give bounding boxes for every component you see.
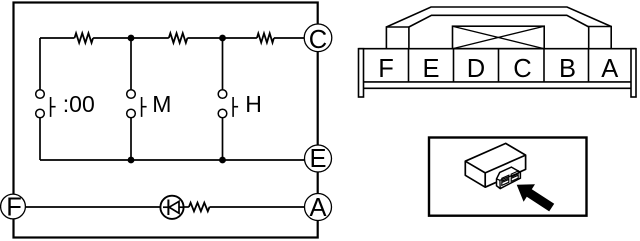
connector cell divider E/D: [453, 49, 455, 82]
connector face bottom: [364, 81, 632, 83]
junction top rail node 2: [219, 35, 226, 42]
terminal F: [1, 194, 26, 222]
svg-text:A: A: [601, 55, 618, 83]
location inset box: [429, 138, 587, 216]
clock module 3D body: [465, 143, 525, 187]
svg-text:D: D: [467, 55, 485, 83]
junction bottom rail node 1: [128, 157, 135, 164]
connector lock X-box: [453, 26, 545, 49]
wire branch 3 upper: [222, 38, 224, 90]
clock unit outline box: [14, 3, 318, 238]
pointer arrow: [517, 184, 555, 211]
connector left tab: [386, 27, 409, 49]
svg-text:M: M: [152, 91, 171, 117]
svg-text:C: C: [513, 55, 531, 83]
svg-text:E: E: [309, 145, 326, 173]
terminal E: [305, 145, 332, 173]
wire top rail segment 2: [93, 37, 169, 39]
svg-text:F: F: [378, 55, 394, 83]
connector cell divider F/E: [408, 49, 410, 82]
resistor R2: [169, 33, 188, 43]
connector cell divider C/B: [543, 49, 545, 82]
wire top rail segment 3: [187, 37, 257, 39]
connector right tab: [589, 27, 612, 49]
connector hood outer: [386, 7, 611, 27]
connector face top: [359, 48, 637, 50]
wire diode to resistor: [184, 206, 189, 208]
wire resistor to A: [210, 206, 305, 208]
connector base line: [364, 87, 632, 89]
connector cell divider B/A: [588, 49, 590, 82]
socket holes: [502, 171, 518, 185]
wire branch 2 upper: [130, 38, 132, 90]
svg-text:E: E: [422, 55, 439, 83]
terminal A: [305, 194, 332, 223]
svg-text:A: A: [309, 194, 326, 222]
switch S1 :00: [36, 90, 56, 118]
wire branch 3 lower: [222, 118, 224, 160]
switch S3 H: [218, 90, 238, 118]
svg-text:F: F: [6, 194, 22, 222]
wire branch 1 upper: [39, 38, 41, 90]
diode D1 in circle: [160, 196, 183, 219]
clock module socket detail: [497, 167, 521, 189]
wire F to diode: [26, 206, 161, 208]
resistor R3: [257, 33, 274, 42]
connector left end wall: [359, 49, 364, 97]
svg-text:C: C: [309, 26, 327, 54]
connector right end wall: [631, 49, 636, 97]
resistor R1: [75, 33, 94, 43]
wire branch 1 lower: [39, 118, 41, 160]
terminal C: [304, 24, 332, 54]
wire bottom rail: [40, 159, 305, 161]
wire branch 2 lower: [130, 118, 132, 160]
svg-text:B: B: [559, 55, 576, 83]
junction bottom rail node 2: [219, 157, 226, 164]
svg-text:H: H: [245, 91, 262, 117]
resistor R4: [189, 203, 210, 212]
connector hood inner: [409, 15, 589, 27]
junction top rail node 1: [128, 35, 135, 42]
connector pinout drawing: [359, 7, 637, 97]
switch S2 M: [127, 90, 147, 118]
wire top rail segment 1: [40, 37, 75, 39]
wire top rail segment 4: [274, 37, 305, 39]
connector cell divider D/C: [498, 49, 500, 82]
svg-text::00: :00: [63, 91, 95, 117]
